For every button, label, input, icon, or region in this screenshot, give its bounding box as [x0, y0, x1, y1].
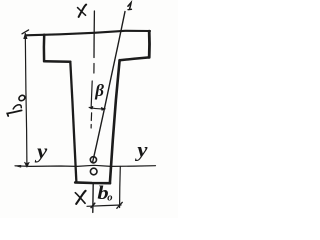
beta arc left arrowhead	[89, 106, 93, 109]
x axis segment through beta vertex	[91, 81, 92, 109]
b0 dimension line	[87, 205, 121, 206]
svg-text:β: β	[94, 81, 104, 100]
x axis bottom segment	[92, 184, 94, 212]
h0 top overshoot tick	[22, 30, 29, 34]
b0 left slash tick	[91, 203, 95, 207]
T-section flange right face	[148, 31, 151, 57]
svg-text:o: o	[107, 193, 112, 204]
b0 right slash tick	[117, 202, 123, 208]
h0 dimension line	[25, 34, 27, 165]
x axis top segment	[93, 11, 95, 58]
T-section flange bottom-right edge	[120, 57, 150, 60]
rebar circle upper (vertex of beta)	[90, 157, 96, 163]
label h0 (left dimension, rotated handwriting strokes)	[7, 94, 26, 116]
x axis dash 2	[90, 113, 92, 121]
T-section stem left edge	[70, 62, 76, 183]
T-section flange top edge	[26, 31, 151, 36]
x axis dash 1	[93, 64, 95, 74]
beta angle arc	[89, 107, 105, 109]
line 1 (slanted through section)	[93, 12, 126, 163]
y axis (horizontal)	[15, 165, 156, 166]
rebar circle lower	[90, 168, 97, 175]
T-section stem right edge	[110, 60, 120, 183]
T-section flange bottom-left edge	[44, 60, 70, 63]
label x (top axis), drawn as two handwriting strokes	[78, 5, 87, 17]
beta arc right arrowhead	[101, 107, 105, 110]
x axis dash 3	[90, 125, 92, 129]
T-section stem bottom edge	[75, 181, 110, 184]
label x (bottom axis), handwriting strokes	[75, 191, 85, 204]
b0 right extension line	[119, 167, 122, 208]
y axis left end wedge	[15, 165, 21, 167]
h0 top arrowhead	[24, 34, 27, 39]
T-section flange left face	[43, 35, 46, 62]
h0 bottom arrowhead	[24, 162, 29, 167]
label 1 (slanted line), handwriting strokes	[128, 3, 132, 10]
